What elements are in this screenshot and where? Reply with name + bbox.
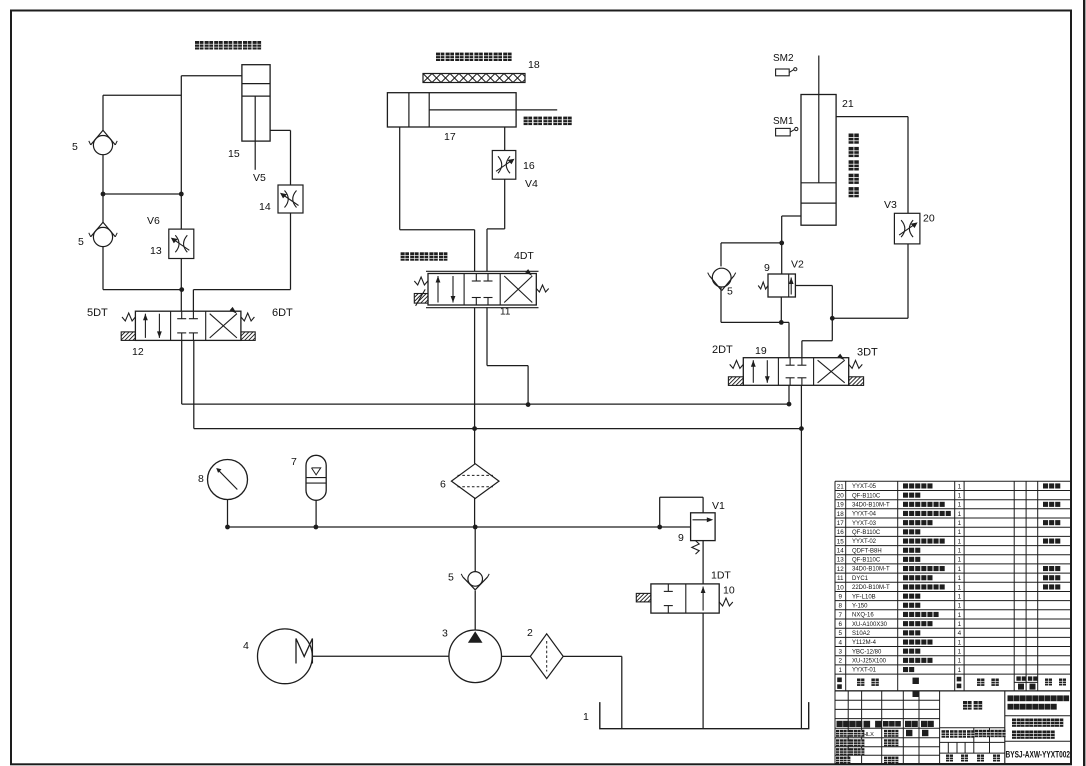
svg-text:1: 1	[958, 575, 962, 582]
svg-text:1: 1	[958, 639, 962, 646]
svg-text:14: 14	[259, 201, 271, 213]
svg-text:1: 1	[958, 621, 962, 628]
svg-text:1: 1	[958, 658, 962, 665]
svg-text:15: 15	[228, 148, 240, 160]
svg-text:1: 1	[958, 520, 962, 527]
svg-text:1: 1	[958, 612, 962, 619]
svg-text:20: 20	[923, 213, 935, 225]
svg-text:1: 1	[839, 667, 843, 674]
svg-text:3DT: 3DT	[857, 347, 878, 359]
svg-text:1: 1	[958, 511, 962, 518]
svg-text:18: 18	[528, 59, 540, 71]
svg-text:21: 21	[842, 98, 854, 110]
svg-text:4: 4	[243, 640, 249, 652]
svg-text:1: 1	[958, 649, 962, 656]
svg-text:YYXT-01: YYXT-01	[852, 668, 877, 674]
svg-text:5: 5	[448, 572, 454, 584]
svg-text:34D0-B10M-T: 34D0-B10M-T	[852, 567, 890, 573]
svg-text:1: 1	[958, 566, 962, 573]
svg-text:1: 1	[958, 548, 962, 555]
svg-text:2: 2	[839, 658, 843, 665]
svg-text:XU-J25X100: XU-J25X100	[852, 659, 887, 665]
svg-text:22D0-B10M-T: 22D0-B10M-T	[852, 585, 890, 591]
svg-text:2: 2	[527, 627, 533, 639]
svg-text:18: 18	[837, 511, 845, 518]
svg-text:QF-B110C: QF-B110C	[852, 530, 881, 536]
svg-text:NXQ-16: NXQ-16	[852, 613, 874, 619]
svg-text:15: 15	[837, 538, 845, 545]
svg-text:12: 12	[837, 566, 845, 573]
svg-text:5: 5	[839, 630, 843, 637]
svg-text:10: 10	[723, 585, 735, 597]
svg-text:YYXT-02: YYXT-02	[852, 539, 877, 545]
svg-text:V4: V4	[525, 178, 538, 190]
svg-text:V1: V1	[712, 500, 725, 512]
svg-text:1: 1	[958, 594, 962, 601]
svg-text:3: 3	[839, 649, 843, 656]
svg-text:DYC1: DYC1	[852, 576, 869, 582]
svg-text:8: 8	[198, 473, 204, 485]
svg-text:21: 21	[837, 483, 845, 490]
svg-text:19: 19	[755, 345, 767, 357]
svg-text:1: 1	[958, 584, 962, 591]
svg-text:13: 13	[837, 557, 845, 564]
svg-text:XU-A100X30: XU-A100X30	[852, 622, 888, 628]
svg-text:5DT: 5DT	[87, 307, 108, 319]
svg-text:11: 11	[500, 307, 511, 318]
svg-text:1: 1	[583, 711, 589, 723]
svg-text:3: 3	[442, 628, 448, 640]
svg-text:19: 19	[837, 502, 845, 509]
svg-text:8: 8	[839, 603, 843, 610]
svg-text:4DT: 4DT	[514, 250, 534, 262]
svg-text:7: 7	[291, 456, 297, 468]
svg-text:1DT: 1DT	[711, 570, 731, 582]
svg-text:4: 4	[839, 639, 843, 646]
svg-text:S10A2: S10A2	[852, 631, 871, 637]
svg-text:1: 1	[958, 493, 962, 500]
svg-text:2DT: 2DT	[712, 344, 733, 356]
svg-text:17: 17	[837, 520, 845, 527]
svg-text:YBC-12/80: YBC-12/80	[852, 649, 882, 655]
svg-text:Y112M-4: Y112M-4	[852, 640, 877, 646]
svg-text:10: 10	[837, 584, 845, 591]
svg-text:QDFT-B8H: QDFT-B8H	[852, 548, 882, 554]
svg-text:9: 9	[678, 532, 684, 544]
svg-text:9: 9	[839, 594, 843, 601]
svg-text:14: 14	[837, 548, 845, 555]
svg-text:5: 5	[727, 286, 733, 298]
svg-text:5: 5	[78, 236, 84, 248]
svg-text:1: 1	[958, 538, 962, 545]
svg-text:9: 9	[764, 262, 770, 274]
svg-text:16: 16	[837, 529, 845, 536]
svg-text:V6: V6	[147, 215, 160, 227]
svg-text:YF-L10B: YF-L10B	[852, 594, 876, 600]
svg-text:4: 4	[958, 630, 962, 637]
svg-text:V3: V3	[884, 199, 897, 211]
svg-text:HLX: HLX	[863, 732, 874, 738]
svg-text:13: 13	[150, 245, 162, 257]
svg-text:12: 12	[132, 346, 144, 358]
svg-text:BYSJ-AXW-YYXT002: BYSJ-AXW-YYXT002	[1006, 750, 1071, 760]
svg-text:6: 6	[839, 621, 843, 628]
svg-text:YYXT-03: YYXT-03	[852, 521, 877, 527]
svg-text:1: 1	[958, 557, 962, 564]
svg-text:1: 1	[958, 603, 962, 610]
svg-text:6DT: 6DT	[272, 307, 293, 319]
svg-text:V2: V2	[791, 259, 804, 271]
svg-text:5: 5	[72, 141, 78, 153]
svg-text:1: 1	[958, 502, 962, 509]
svg-text:6: 6	[440, 479, 446, 491]
svg-text:QF-B110C: QF-B110C	[852, 558, 881, 564]
svg-text:1: 1	[958, 529, 962, 536]
svg-text:YYXT-05: YYXT-05	[852, 484, 877, 490]
svg-text:1: 1	[958, 483, 962, 490]
svg-text:7: 7	[839, 612, 843, 619]
svg-text:11: 11	[837, 575, 844, 582]
svg-text:16: 16	[523, 160, 535, 172]
svg-text:QF-B110C: QF-B110C	[852, 493, 881, 499]
svg-text:20: 20	[837, 493, 845, 500]
svg-text:Y-150: Y-150	[852, 603, 868, 609]
svg-text:34D0-B10M-T: 34D0-B10M-T	[852, 503, 890, 509]
svg-text:V5: V5	[253, 172, 266, 184]
svg-text:SM1: SM1	[773, 116, 794, 127]
svg-text:YYXT-04: YYXT-04	[852, 512, 877, 518]
svg-text:1: 1	[958, 667, 962, 674]
svg-text:17: 17	[444, 131, 456, 143]
svg-text:SM2: SM2	[773, 53, 794, 64]
